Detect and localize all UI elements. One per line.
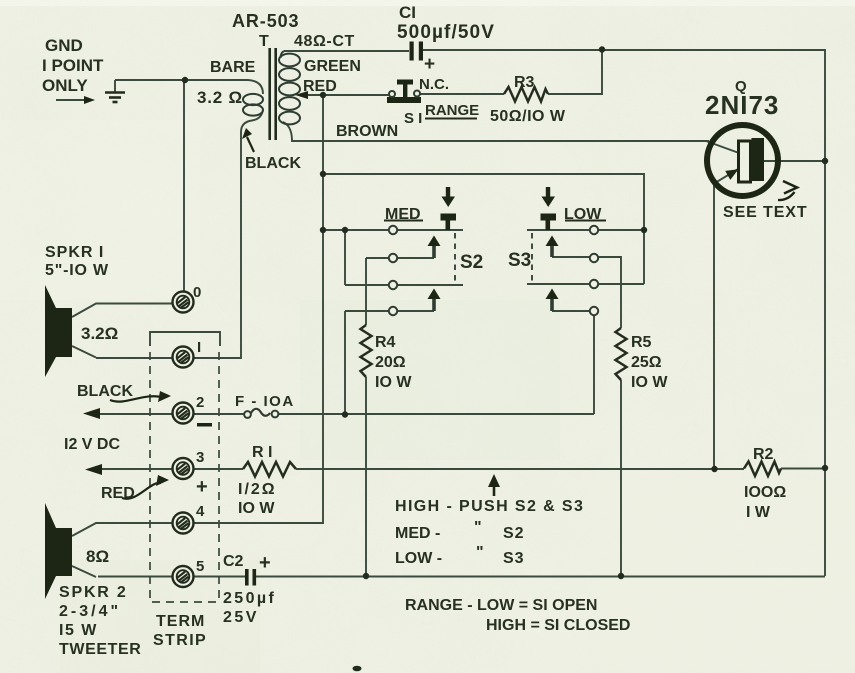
svg-text:MED -: MED - xyxy=(395,525,440,542)
svg-text:S3: S3 xyxy=(503,550,525,567)
svg-text:IO W: IO W xyxy=(631,374,668,391)
svg-text:GREEN: GREEN xyxy=(304,58,361,75)
svg-text:I2 V DC: I2 V DC xyxy=(64,436,120,453)
svg-text:R3: R3 xyxy=(514,74,535,91)
svg-text:48Ω-CT: 48Ω-CT xyxy=(294,33,355,50)
svg-text:IOOΩ: IOOΩ xyxy=(744,484,786,501)
svg-text:T: T xyxy=(259,33,269,50)
svg-text:BARE: BARE xyxy=(210,59,256,76)
svg-text:SEE TEXT: SEE TEXT xyxy=(723,204,808,221)
svg-text:3.2 Ω: 3.2 Ω xyxy=(197,88,243,107)
svg-text:2: 2 xyxy=(196,394,204,411)
svg-text:R4: R4 xyxy=(375,334,396,351)
svg-text:STRIP: STRIP xyxy=(153,632,207,649)
svg-text:I W: I W xyxy=(746,504,771,521)
svg-text:HIGH = SI CLOSED: HIGH = SI CLOSED xyxy=(486,617,630,634)
svg-text:RANGE - LOW = SI OPEN: RANGE - LOW = SI OPEN xyxy=(405,597,597,614)
svg-text:TERM: TERM xyxy=(156,613,205,630)
svg-text:BLACK: BLACK xyxy=(77,383,133,400)
svg-text:C2: C2 xyxy=(223,553,244,570)
svg-text:5"-IO W: 5"-IO W xyxy=(45,262,109,279)
svg-text:R I: R I xyxy=(252,444,272,461)
svg-text:HIGH - PUSH S2 & S3: HIGH - PUSH S2 & S3 xyxy=(395,498,584,515)
svg-text:I5 W: I5 W xyxy=(59,622,98,639)
svg-text:F - IOA: F - IOA xyxy=(235,393,295,410)
svg-text:R5: R5 xyxy=(631,334,652,351)
svg-text:RANGE: RANGE xyxy=(425,102,479,119)
svg-text:SPKR 2: SPKR 2 xyxy=(59,584,128,601)
svg-text:AR-503: AR-503 xyxy=(232,11,299,31)
svg-text:500µf/50V: 500µf/50V xyxy=(397,22,495,43)
svg-text:LOW -: LOW - xyxy=(395,550,442,567)
svg-text:": " xyxy=(474,519,482,536)
svg-text:I/2Ω: I/2Ω xyxy=(238,481,277,498)
svg-text:RED: RED xyxy=(101,485,135,502)
svg-text:0: 0 xyxy=(193,284,201,301)
svg-text:ONLY: ONLY xyxy=(42,76,88,95)
svg-text:5: 5 xyxy=(196,558,204,575)
svg-text:TWEETER: TWEETER xyxy=(59,641,141,658)
svg-text:8Ω: 8Ω xyxy=(86,547,109,566)
svg-text:3.2Ω: 3.2Ω xyxy=(81,324,118,343)
svg-text:RED: RED xyxy=(303,78,337,95)
svg-text:I POINT: I POINT xyxy=(42,56,104,75)
svg-text:S2: S2 xyxy=(503,525,525,542)
svg-text:50Ω/IO W: 50Ω/IO W xyxy=(490,108,566,125)
svg-text:2NI73: 2NI73 xyxy=(705,90,779,120)
svg-text:": " xyxy=(476,544,484,561)
svg-text:S I: S I xyxy=(404,110,422,127)
svg-text:IO W: IO W xyxy=(238,500,275,517)
svg-text:BROWN: BROWN xyxy=(336,123,398,140)
svg-text:SPKR I: SPKR I xyxy=(45,244,104,261)
svg-text:N.C.: N.C. xyxy=(419,76,449,93)
svg-text:R2: R2 xyxy=(753,446,774,463)
svg-text:4: 4 xyxy=(196,503,205,520)
svg-text:20Ω: 20Ω xyxy=(375,354,406,371)
svg-text:CI: CI xyxy=(399,3,416,22)
svg-text:250µf: 250µf xyxy=(223,590,276,607)
svg-text:IO W: IO W xyxy=(375,374,412,391)
svg-text:BLACK: BLACK xyxy=(245,155,301,172)
svg-text:+: + xyxy=(424,54,435,75)
svg-text:GND: GND xyxy=(45,36,83,55)
svg-text:25V: 25V xyxy=(223,609,259,626)
svg-text:I: I xyxy=(197,339,201,356)
svg-text:+: + xyxy=(196,476,208,498)
svg-text:25Ω: 25Ω xyxy=(631,354,662,371)
svg-text:S2: S2 xyxy=(460,252,483,273)
svg-text:2-3/4": 2-3/4" xyxy=(59,603,121,620)
svg-text:+: + xyxy=(259,552,271,574)
svg-text:3: 3 xyxy=(196,449,204,466)
svg-text:S3: S3 xyxy=(508,250,531,271)
